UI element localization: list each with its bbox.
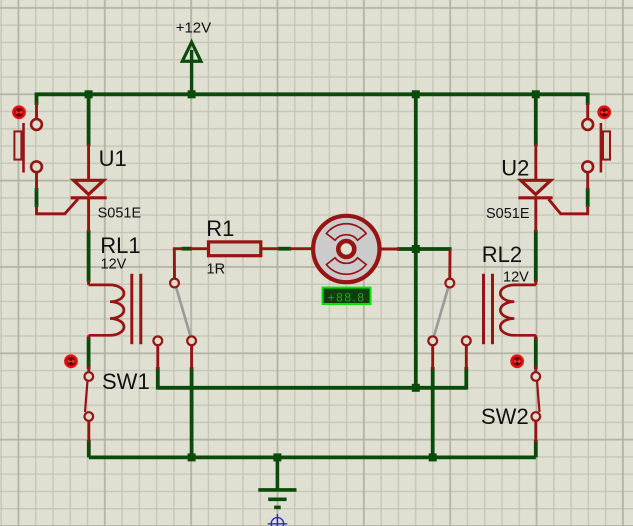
svg-text:1R: 1R	[207, 262, 226, 278]
svg-text:S051E: S051E	[486, 206, 530, 222]
svg-text:+12V: +12V	[176, 19, 211, 36]
svg-text:RL2: RL2	[482, 242, 522, 267]
svg-text:U2: U2	[501, 155, 529, 180]
svg-text:U1: U1	[99, 146, 127, 171]
svg-text:SW1: SW1	[102, 369, 150, 394]
svg-text:+88.8: +88.8	[328, 290, 366, 304]
svg-text:S051E: S051E	[98, 206, 142, 222]
svg-text:12V: 12V	[101, 257, 127, 273]
svg-text:R1: R1	[206, 216, 234, 241]
svg-text:SW2: SW2	[481, 404, 529, 429]
svg-text:12V: 12V	[503, 270, 529, 286]
svg-text:RL1: RL1	[100, 233, 140, 258]
